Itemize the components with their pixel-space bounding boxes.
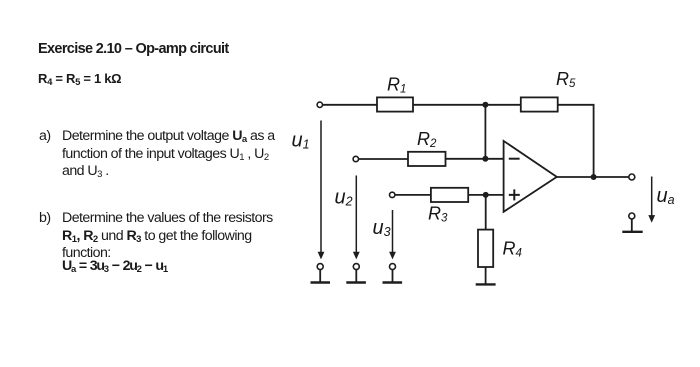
svg-text:R4: R4 (503, 239, 522, 260)
item a) label (39, 128, 51, 146)
ground terminal near output (622, 213, 642, 232)
voltage arrow ua (648, 177, 655, 223)
resistor R2 (408, 152, 446, 166)
op-amp non-inverting input plus sign (509, 189, 520, 200)
resistor R3 (431, 188, 468, 202)
junction: inverting input node (482, 156, 488, 162)
terminal: u2 input (353, 156, 358, 161)
svg-text:u1: u1 (292, 130, 310, 152)
wire: u2 terminal to R2 (359, 158, 408, 160)
op-amp inverting input minus sign (509, 158, 520, 160)
wire: u3 terminal to R3 (395, 194, 431, 196)
wire: non-inverting node down to R4 (485, 195, 487, 230)
resistor R4 (478, 230, 493, 267)
wire: u1 terminal to R1 (323, 104, 378, 106)
voltage arrow u2 (353, 176, 360, 260)
wire: R1 to R5 (top net) (413, 104, 521, 106)
junction: top node at R1/R5 (482, 102, 488, 108)
junction: non-inverting input node (483, 192, 489, 198)
item a) text (62, 128, 294, 181)
resistor R1 (377, 97, 413, 111)
terminal: u1 input (317, 102, 322, 107)
op-amp U1 triangle (504, 141, 557, 212)
ground terminal under u3 (383, 264, 403, 283)
wire: R2 to op-amp inverting input (446, 158, 504, 160)
voltage arrow u1 (318, 121, 325, 260)
wire: R4 bottom to ground (485, 267, 487, 285)
svg-text:ua: ua (657, 185, 675, 207)
svg-text:R3: R3 (428, 204, 448, 225)
svg-text:u3: u3 (373, 217, 391, 239)
voltage arrow u3 (389, 210, 396, 259)
title (38, 41, 229, 57)
terminal: u3 input (390, 192, 395, 197)
wire: op-amp output to output terminal (557, 176, 629, 178)
svg-text:R5: R5 (556, 69, 576, 90)
svg-text:R1: R1 (387, 75, 406, 96)
wire: R5 right to corner down to output node (558, 105, 594, 177)
junction: output node (591, 174, 597, 180)
ground terminal under u1 (311, 264, 331, 283)
ground under R4 (476, 283, 496, 285)
formula Ua = 3u3 - 2u2 - u1 (62, 258, 167, 276)
wire: R3 to op-amp non-inverting input (468, 194, 503, 196)
item b) label (39, 210, 51, 228)
svg-text:u2: u2 (335, 187, 353, 209)
svg-text:R2: R2 (417, 129, 437, 150)
terminal: output ua (629, 174, 635, 180)
resistor R5 (521, 97, 558, 111)
wire: top junction down to inverting input (484, 105, 486, 159)
item b) text (62, 210, 302, 263)
given values line (38, 71, 121, 86)
ground terminal under u2 (346, 264, 366, 283)
